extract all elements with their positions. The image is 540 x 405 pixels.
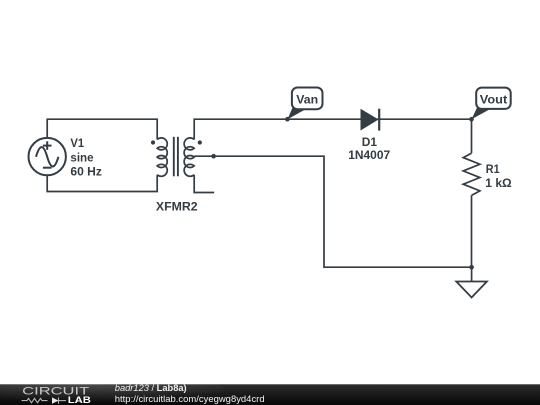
core bars: [173, 137, 175, 177]
phase dot right: [198, 140, 202, 144]
phase dot left: [151, 140, 155, 144]
junction Van: [285, 117, 290, 122]
svg-text:XFMR2: XFMR2: [156, 201, 198, 213]
voltage source V1: [29, 138, 66, 175]
diode D1: [361, 109, 379, 131]
svg-text:badr123 / Lab8a): badr123 / Lab8a): [115, 383, 187, 393]
svg-text:Van: Van: [296, 95, 318, 107]
junction center tap: [211, 154, 216, 159]
D1 labels: [348, 137, 390, 162]
svg-text:60 Hz: 60 Hz: [70, 167, 102, 179]
ground: [456, 282, 487, 298]
transformer XFMR2: [157, 137, 194, 177]
wire primary bottom rail: [47, 175, 157, 192]
left coil: [157, 138, 167, 176]
svg-text:sine: sine: [70, 152, 93, 164]
wire center tap to bottom rail: [194, 156, 471, 267]
wire ground stem: [471, 267, 473, 281]
junction Vout: [469, 117, 474, 122]
CircuitLab logo: [22, 385, 91, 405]
R1 labels: [485, 164, 511, 190]
svg-text:Vout: Vout: [480, 95, 508, 107]
wire R1 to ground junction: [471, 195, 473, 267]
right coil: [184, 138, 194, 176]
svg-text:1 kΩ: 1 kΩ: [485, 178, 511, 190]
svg-text:D1: D1: [362, 137, 378, 149]
wire secondary bottom stub: [194, 175, 214, 193]
svg-text:http://circuitlab.com/cyegwg8y: http://circuitlab.com/cyegwg8yd4crd: [115, 394, 265, 404]
V1 labels: [70, 138, 102, 178]
wire primary top rail: [47, 119, 157, 139]
junction ground node: [469, 265, 474, 270]
svg-text:1N4007: 1N4007: [348, 150, 390, 162]
wire Vout to R1: [471, 119, 473, 153]
node Vout flag: [472, 88, 511, 120]
resistor R1: [463, 153, 480, 195]
svg-text:LAB: LAB: [68, 395, 91, 405]
svg-text:V1: V1: [70, 138, 84, 150]
node Van flag: [287, 88, 322, 120]
svg-text:R1: R1: [486, 164, 500, 176]
wire secondary top rail: [194, 119, 471, 139]
